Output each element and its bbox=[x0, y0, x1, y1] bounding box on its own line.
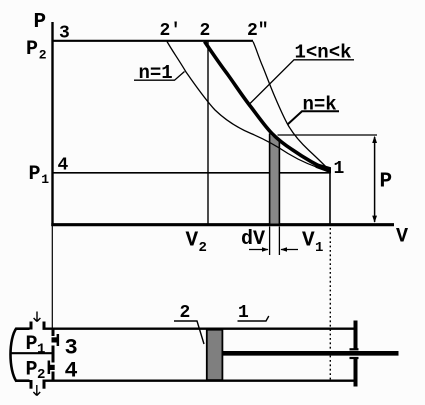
svg-text:4: 4 bbox=[58, 156, 69, 176]
svg-text:P: P bbox=[26, 333, 38, 356]
svg-text:P: P bbox=[380, 171, 393, 194]
svg-text:1: 1 bbox=[238, 303, 249, 323]
svg-text:P: P bbox=[29, 163, 41, 186]
svg-text:1: 1 bbox=[334, 159, 345, 179]
svg-text:1: 1 bbox=[315, 240, 323, 256]
svg-text:1<n<k: 1<n<k bbox=[295, 42, 352, 64]
svg-text:4: 4 bbox=[65, 359, 78, 384]
svg-text:P: P bbox=[34, 11, 47, 34]
svg-text:P: P bbox=[26, 359, 38, 382]
svg-text:dV: dV bbox=[241, 228, 265, 251]
svg-text:1: 1 bbox=[37, 342, 45, 358]
svg-text:V: V bbox=[186, 230, 199, 253]
svg-text:3: 3 bbox=[59, 24, 70, 44]
svg-text:n=1: n=1 bbox=[139, 62, 173, 84]
svg-text:2": 2" bbox=[247, 21, 269, 41]
svg-text:2': 2' bbox=[160, 21, 182, 41]
svg-text:2: 2 bbox=[199, 240, 207, 256]
svg-text:1: 1 bbox=[41, 172, 49, 187]
svg-text:V: V bbox=[302, 230, 315, 253]
svg-text:2: 2 bbox=[39, 48, 47, 63]
svg-text:V: V bbox=[396, 226, 408, 249]
svg-text:2: 2 bbox=[180, 303, 191, 323]
svg-text:P: P bbox=[26, 38, 38, 61]
svg-text:3: 3 bbox=[65, 336, 78, 361]
svg-text:2: 2 bbox=[200, 21, 211, 41]
svg-text:2: 2 bbox=[37, 367, 45, 383]
svg-text:n=k: n=k bbox=[303, 94, 337, 116]
